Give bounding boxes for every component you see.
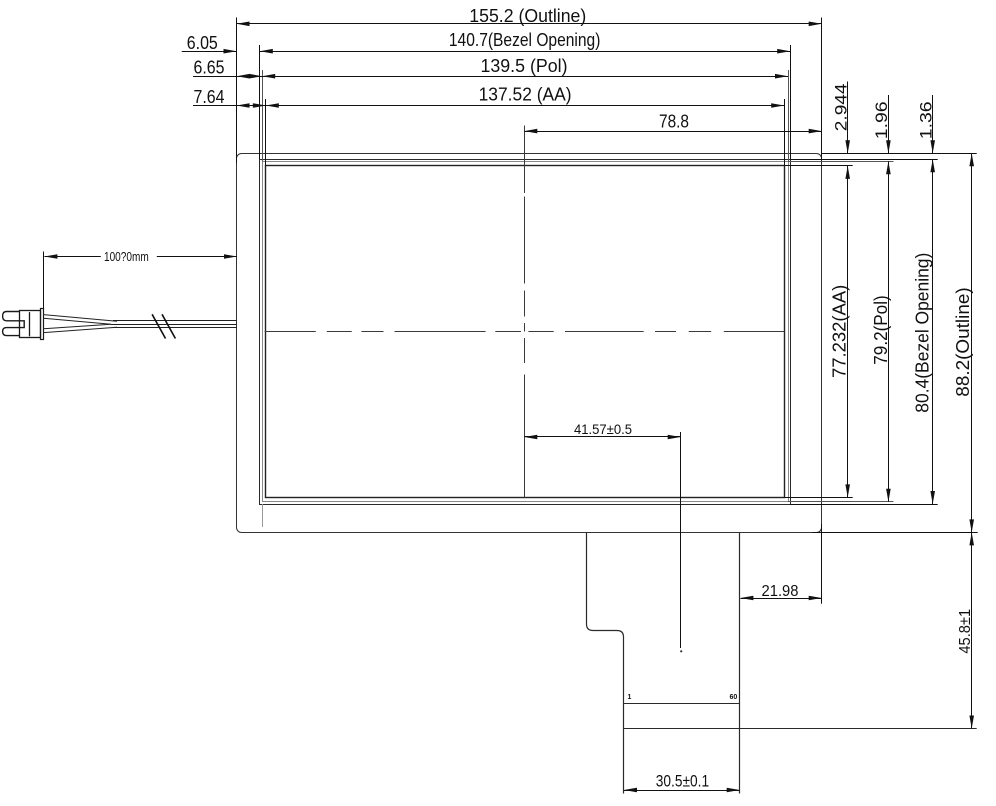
svg-text:77.232(AA): 77.232(AA) (830, 285, 850, 378)
dim 137.52 AA (193, 84, 784, 108)
svg-text:80.4(Bezel Opening): 80.4(Bezel Opening) (913, 253, 933, 413)
svg-text:7.64: 7.64 (194, 87, 225, 107)
wire fan bottom a (44, 324, 112, 329)
bezel opening rect 140.7x80.4 (260, 160, 791, 505)
ext AA-bottom right (784, 497, 853, 499)
dim 80.4 Bezel Opening vertical (913, 159, 935, 504)
wire bundle line 2 (111, 324, 237, 326)
connector body (20, 311, 41, 338)
ext bezel-bottom right (790, 504, 938, 506)
connector flange (41, 309, 44, 340)
dim 155.2 Outline (237, 6, 822, 26)
dim 78.8 (524, 111, 821, 133)
ext bezel-top right (790, 159, 938, 161)
svg-text:155.2 (Outline): 155.2 (Outline) (469, 6, 586, 26)
wire bundle line 3 (113, 327, 237, 329)
svg-text:78.8: 78.8 (659, 111, 689, 131)
dim 77.232 AA vertical (830, 166, 850, 498)
pin 1 label (628, 694, 632, 701)
svg-text:1: 1 (628, 694, 632, 701)
ext cable-dim left (43, 252, 45, 309)
ext pol-bottom right (788, 501, 893, 503)
ext bezel-left top (259, 45, 261, 159)
dim 88.2 Outline vertical (953, 153, 974, 532)
FPC tail left edge with step (587, 532, 624, 793)
cable break slash 1 (152, 314, 165, 338)
ext outline-left top (236, 18, 238, 164)
svg-text:100?0mm: 100?0mm (104, 250, 149, 264)
svg-text:6.65: 6.65 (194, 58, 225, 78)
ext connector center (680, 432, 682, 648)
ext outline-right top (821, 18, 823, 164)
svg-text:6.05: 6.05 (187, 33, 218, 53)
dim 6.65 (194, 58, 263, 79)
wire bundle line 1 (113, 320, 237, 322)
connector divider (29, 312, 31, 336)
pin 60 label (730, 694, 738, 701)
ext outline-bottom right (812, 532, 978, 534)
dim 140.7 Bezel Opening (260, 30, 790, 53)
svg-text:88.2(Outline): 88.2(Outline) (953, 287, 973, 396)
ext AA-top right (784, 165, 853, 167)
panel outline 155.2x88.2 (237, 154, 822, 533)
active area rect 137.52x77.232 (266, 166, 785, 498)
FPC connector bottom edge + extension line (624, 728, 977, 730)
ext outline-right bottom (821, 524, 823, 604)
wire fan top a (44, 315, 118, 322)
svg-text:2.944: 2.944 (831, 84, 850, 132)
dim 6.05 (182, 33, 237, 54)
svg-text:1.36: 1.36 (917, 101, 936, 139)
FPC connector top edge (624, 703, 740, 705)
svg-text:139.5 (Pol): 139.5 (Pol) (481, 56, 568, 76)
dim 1.36 (917, 95, 936, 153)
svg-text:140.7(Bezel Opening): 140.7(Bezel Opening) (449, 30, 601, 50)
ext pol-top right (788, 161, 893, 163)
dim 139.5 Pol (193, 56, 788, 78)
ext outline-top right (822, 153, 977, 155)
wire fan bottom b (44, 327, 118, 332)
svg-text:1.96: 1.96 (872, 101, 891, 139)
cable break slash 2 (162, 314, 175, 338)
dim 30.5±0.1 (624, 771, 740, 792)
ext AA-left top (265, 99, 267, 166)
ext bezel-right top (790, 45, 792, 159)
FPC tail right edge (739, 532, 741, 793)
dim 7.64 (194, 87, 266, 108)
dim 1.96 (872, 95, 891, 153)
horizontal centerline (265, 331, 785, 333)
connector center dot (680, 650, 682, 652)
glass edge mark bottom-left (262, 504, 264, 527)
dim 100?0mm cable length (44, 250, 237, 264)
wire fan top b (44, 318, 112, 324)
vertical centerline (524, 126, 526, 498)
connector prongs (3, 312, 25, 336)
dim 21.98 (740, 583, 821, 600)
svg-text:45.8±1: 45.8±1 (957, 609, 974, 654)
dim 2.944 (831, 82, 850, 154)
svg-text:41.57±0.5: 41.57±0.5 (574, 421, 632, 437)
ext AA-right top (784, 99, 786, 166)
svg-text:21.98: 21.98 (762, 583, 799, 600)
ext pol-right top (788, 70, 790, 161)
svg-text:60: 60 (730, 694, 738, 701)
ext pol-left top (262, 70, 264, 161)
dim 45.8±1 vertical (957, 532, 974, 728)
dim 79.2 Pol vertical (871, 161, 891, 502)
svg-text:137.52 (AA): 137.52 (AA) (479, 84, 572, 104)
polarizer rect 139.5x79.2 (263, 162, 789, 502)
svg-text:79.2(Pol): 79.2(Pol) (871, 295, 891, 364)
svg-text:30.5±0.1: 30.5±0.1 (656, 771, 709, 790)
dim 41.57±0.5 (524, 421, 680, 439)
